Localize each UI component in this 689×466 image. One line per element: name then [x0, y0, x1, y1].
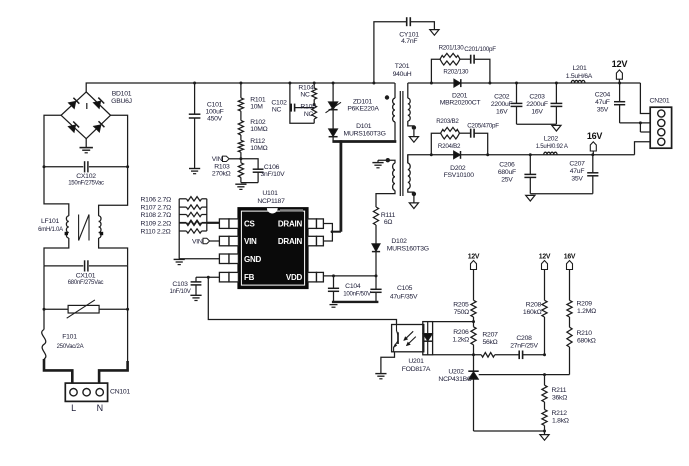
- pin pad DRAIN1: [308, 219, 324, 229]
- svg-text:250Vac/2A: 250Vac/2A: [57, 344, 84, 350]
- transformer primary winding: [385, 83, 395, 140]
- svg-text:FB: FB: [244, 273, 255, 282]
- snubber R203 R204: [430, 118, 461, 156]
- svg-text:VIN: VIN: [244, 237, 257, 246]
- diode D102: [372, 238, 429, 289]
- diode D101: [329, 110, 386, 142]
- svg-text:2200uF: 2200uF: [491, 101, 513, 108]
- resistor R206: [452, 327, 476, 355]
- resistor R212: [542, 402, 569, 431]
- svg-text:6Ω: 6Ω: [384, 219, 393, 226]
- pin pad FB: [219, 272, 238, 282]
- wire choke bottom left: [44, 238, 69, 266]
- svg-text:680kΩ: 680kΩ: [577, 337, 596, 344]
- svg-text:R108 2.7Ω: R108 2.7Ω: [141, 212, 172, 219]
- svg-text:L: L: [71, 403, 76, 413]
- capacitor C203: [517, 82, 563, 125]
- diode D202: [444, 151, 475, 179]
- transformer T201 core: [393, 63, 412, 196]
- svg-text:D101: D101: [356, 123, 372, 130]
- ground secondary1 arrow: [409, 137, 418, 143]
- ground bottom arrow: [540, 435, 549, 441]
- wire left rail CX101 to varistor: [43, 266, 45, 309]
- svg-text:D102: D102: [391, 238, 407, 245]
- svg-text:R204/B2: R204/B2: [438, 143, 461, 150]
- resistor R110: [141, 229, 207, 236]
- svg-text:16V: 16V: [496, 109, 508, 116]
- wire opto to R207 row: [433, 353, 482, 356]
- svg-text:DRAIN: DRAIN: [278, 237, 303, 246]
- capacitor C201: [460, 46, 496, 85]
- pin pad VDD: [308, 272, 324, 282]
- svg-text:CS: CS: [244, 220, 256, 229]
- resistor R111: [373, 207, 395, 244]
- ground C202 C203 arrow: [552, 125, 561, 131]
- capacitor C204: [595, 82, 625, 123]
- svg-text:R202/130: R202/130: [443, 69, 469, 76]
- svg-text:10MΩ: 10MΩ: [250, 126, 267, 133]
- choke LF101: [38, 215, 103, 241]
- svg-text:C203: C203: [529, 94, 545, 101]
- svg-text:16V: 16V: [587, 131, 603, 141]
- capacitor CY101: [372, 17, 434, 84]
- svg-text:MBR20200CT: MBR20200CT: [440, 100, 481, 107]
- wire 12V rail: [408, 82, 641, 84]
- svg-text:1.5uH/0.92 A: 1.5uH/0.92 A: [536, 144, 569, 150]
- svg-text:MURS160T3G: MURS160T3G: [344, 130, 386, 137]
- resistor R109: [141, 220, 207, 227]
- svg-text:R112: R112: [250, 138, 265, 145]
- svg-text:C206: C206: [499, 161, 515, 168]
- connector CN101: [65, 383, 130, 413]
- transformer secondary winding 2: [408, 155, 416, 203]
- wire input loop left: [44, 115, 69, 216]
- wire U202 anode bottom: [474, 430, 547, 435]
- svg-text:25V: 25V: [501, 176, 513, 183]
- wire NC loop: [288, 82, 314, 124]
- transformer aux winding: [376, 158, 395, 207]
- pin pad GND: [219, 254, 238, 264]
- svg-text:GND: GND: [244, 255, 262, 264]
- svg-text:35V: 35V: [597, 107, 609, 114]
- varistor: [43, 300, 130, 318]
- svg-text:C103: C103: [172, 281, 188, 288]
- ground C101: [189, 169, 200, 174]
- ground C206 arrow: [526, 195, 535, 201]
- optocoupler U201 FOD817A: [392, 322, 433, 373]
- wire drain thick: [332, 140, 396, 232]
- capacitor C104: [328, 274, 372, 301]
- wire DRAIN pins: [323, 224, 333, 242]
- svg-text:D202: D202: [450, 165, 466, 172]
- wire left rail to fuse: [43, 309, 45, 329]
- svg-text:U202: U202: [448, 368, 464, 375]
- svg-text:R109 2.2Ω: R109 2.2Ω: [141, 220, 172, 227]
- svg-text:680nF/275Vac: 680nF/275Vac: [68, 280, 104, 286]
- wire 16V rail: [408, 155, 635, 163]
- svg-text:10MΩ: 10MΩ: [250, 145, 267, 152]
- svg-text:N: N: [97, 403, 103, 413]
- capacitor C205: [460, 123, 500, 157]
- resistor R208: [523, 300, 547, 355]
- transformer secondary winding 1: [408, 83, 416, 137]
- ground CY101 arrow: [430, 30, 439, 36]
- wire choke bottom right: [99, 238, 128, 266]
- resistor R210: [567, 327, 596, 374]
- svg-text:R101: R101: [250, 96, 266, 103]
- capacitor C102 NC: [271, 99, 315, 113]
- svg-text:940uH: 940uH: [393, 71, 412, 78]
- svg-text:D201: D201: [452, 92, 468, 99]
- inductor L202: [536, 136, 569, 155]
- svg-text:C201/100pF: C201/100pF: [464, 46, 496, 53]
- pin pad VIN: [219, 236, 238, 246]
- resistor R105 NC: [300, 99, 316, 123]
- svg-text:R209: R209: [577, 300, 593, 307]
- capacitor C207: [530, 153, 598, 193]
- TVS ZD101: [326, 82, 380, 113]
- svg-text:NCP431BC: NCP431BC: [438, 376, 471, 383]
- svg-text:R206: R206: [453, 329, 469, 336]
- wire right rail to CN101: [99, 309, 128, 383]
- svg-text:VIN: VIN: [212, 156, 223, 163]
- svg-text:MURS160T3G: MURS160T3G: [387, 245, 429, 252]
- svg-text:C106: C106: [264, 164, 280, 171]
- svg-text:NC: NC: [272, 107, 282, 114]
- svg-text:C208: C208: [516, 335, 532, 342]
- svg-text:35V: 35V: [571, 175, 583, 182]
- node VIN pin: [192, 238, 219, 245]
- svg-text:F101: F101: [62, 334, 77, 341]
- svg-text:VDD: VDD: [286, 273, 303, 282]
- svg-text:R103: R103: [214, 163, 230, 170]
- svg-text:R212: R212: [552, 410, 568, 417]
- node 12V flag top: [612, 59, 629, 83]
- resistor R112: [238, 135, 267, 163]
- svg-text:1.5uH/6A: 1.5uH/6A: [566, 73, 593, 80]
- svg-text:56kΩ: 56kΩ: [482, 339, 497, 346]
- wire HV bus: [86, 83, 395, 92]
- svg-text:1.8kΩ: 1.8kΩ: [552, 417, 569, 424]
- svg-text:1.2kΩ: 1.2kΩ: [452, 336, 469, 343]
- resistor R104 NC: [298, 82, 316, 100]
- svg-text:P6KE220A: P6KE220A: [347, 106, 379, 113]
- svg-text:BD101: BD101: [112, 91, 132, 98]
- connector CN201: [650, 97, 672, 148]
- resistor R103: [212, 163, 244, 183]
- resistor R101: [238, 82, 266, 112]
- node 12V flag R205: [468, 253, 480, 300]
- svg-text:100uF: 100uF: [205, 109, 223, 116]
- svg-text:CN101: CN101: [110, 389, 130, 396]
- node 16V flag R209: [564, 253, 576, 300]
- svg-text:C205/470pF: C205/470pF: [467, 123, 499, 130]
- ground secondary2 arrow: [409, 203, 418, 209]
- shunt regulator U202 NCP431BC: [438, 355, 478, 431]
- svg-text:T201: T201: [395, 63, 410, 70]
- svg-text:FOD817A: FOD817A: [402, 366, 431, 373]
- svg-text:R106 2.7Ω: R106 2.7Ω: [141, 196, 172, 203]
- capacitor C103: [169, 277, 219, 295]
- wire right rail CX101 to varistor: [127, 266, 129, 309]
- pin pad DRAIN2: [308, 236, 324, 246]
- resistor R209: [567, 300, 596, 327]
- svg-text:CX102: CX102: [76, 173, 96, 180]
- inductor L201: [566, 65, 593, 83]
- snubber R201 R202: [430, 45, 469, 85]
- svg-text:47uF: 47uF: [595, 99, 610, 106]
- svg-text:CN201: CN201: [650, 97, 670, 104]
- svg-text:750Ω: 750Ω: [454, 309, 470, 316]
- wire VDD net: [323, 275, 376, 277]
- wire 16V to CN201: [635, 142, 651, 155]
- svg-text:L202: L202: [544, 136, 559, 143]
- pin labels U101: [244, 220, 302, 283]
- wire CS network: [179, 199, 219, 259]
- svg-text:10M: 10M: [250, 103, 263, 110]
- svg-text:C105: C105: [397, 285, 413, 292]
- svg-text:100nF/50V: 100nF/50V: [343, 290, 372, 297]
- svg-text:C101: C101: [207, 102, 223, 109]
- svg-text:6mH/1.0A: 6mH/1.0A: [38, 227, 63, 233]
- ground opto: [375, 374, 386, 379]
- svg-text:R203/B2: R203/B2: [436, 118, 459, 125]
- svg-text:GBU6J: GBU6J: [111, 98, 132, 105]
- svg-text:C202: C202: [494, 94, 510, 101]
- capacitor C206: [498, 153, 536, 193]
- svg-text:CX101: CX101: [76, 272, 96, 279]
- pin pad CS: [219, 219, 238, 229]
- svg-text:R205: R205: [453, 301, 469, 308]
- capacitor C208: [495, 335, 546, 359]
- ground bridge: [80, 139, 93, 153]
- capacitor CX101: [44, 260, 128, 286]
- svg-text:R102: R102: [250, 119, 266, 126]
- wire C204 to CN201: [620, 121, 651, 132]
- svg-text:12V: 12V: [612, 59, 629, 69]
- resistor R205: [453, 300, 476, 327]
- svg-text:C204: C204: [595, 92, 611, 99]
- wire U202 ref to R210 R211: [479, 373, 570, 376]
- resistor R106: [141, 196, 207, 203]
- svg-text:DRAIN: DRAIN: [278, 220, 303, 229]
- node VIN: [212, 156, 243, 163]
- resistor R211: [542, 375, 567, 402]
- wire FB to opto: [207, 276, 397, 325]
- wire to CN101 left thick: [44, 359, 72, 383]
- svg-text:160kΩ: 160kΩ: [523, 309, 542, 316]
- svg-text:12V: 12V: [539, 253, 551, 260]
- capacitor C202: [491, 82, 522, 125]
- svg-text:680uF: 680uF: [498, 169, 516, 176]
- svg-text:R105: R105: [300, 104, 316, 111]
- wire input loop right: [99, 115, 128, 216]
- svg-text:270kΩ: 270kΩ: [212, 171, 231, 178]
- svg-text:FSV10100: FSV10100: [444, 172, 475, 179]
- svg-text:4.7nF: 4.7nF: [401, 38, 417, 45]
- svg-text:150nF/275Vac: 150nF/275Vac: [68, 181, 104, 187]
- svg-text:C104: C104: [345, 283, 361, 290]
- resistor R207: [481, 331, 498, 357]
- fuse F101: [42, 330, 84, 360]
- svg-text:R110 2.2Ω: R110 2.2Ω: [141, 229, 171, 236]
- svg-text:VIN: VIN: [192, 239, 203, 246]
- op-amp U101 NCP1187: [238, 190, 307, 288]
- svg-text:27nF/25V: 27nF/25V: [510, 342, 538, 349]
- bridge rectifier BD101: [61, 91, 132, 139]
- svg-text:3nF/10V: 3nF/10V: [261, 171, 286, 178]
- svg-text:R107 2.7Ω: R107 2.7Ω: [141, 205, 172, 212]
- ground C103: [190, 295, 201, 300]
- svg-text:2200uF: 2200uF: [526, 101, 548, 108]
- svg-text:1.2MΩ: 1.2MΩ: [577, 308, 596, 315]
- svg-text:R111: R111: [381, 212, 396, 219]
- node 16V flag mid: [587, 131, 603, 155]
- svg-text:U101: U101: [262, 190, 278, 197]
- svg-text:16V: 16V: [531, 109, 543, 116]
- svg-text:R207: R207: [482, 331, 498, 338]
- ground C104 C105: [330, 302, 379, 307]
- svg-text:47uF: 47uF: [570, 168, 585, 175]
- svg-text:LF101: LF101: [41, 218, 59, 225]
- svg-text:450V: 450V: [207, 116, 223, 123]
- svg-text:NC: NC: [300, 92, 310, 99]
- ground R103: [235, 184, 246, 189]
- wire 12V to CN201: [640, 83, 650, 114]
- wire GND pin: [179, 258, 219, 260]
- capacitor C105: [370, 274, 418, 301]
- wire opto LED top to R205 R206: [433, 320, 475, 323]
- capacitor C106: [241, 159, 285, 183]
- svg-text:R208: R208: [526, 301, 542, 308]
- svg-text:NC: NC: [304, 111, 314, 118]
- svg-text:R104: R104: [298, 85, 314, 92]
- svg-text:NCP1187: NCP1187: [257, 198, 285, 205]
- capacitor CX102: [43, 161, 130, 186]
- svg-text:C207: C207: [569, 160, 585, 167]
- svg-text:12V: 12V: [468, 253, 480, 260]
- svg-text:ZD101: ZD101: [353, 98, 373, 105]
- resistor R102: [238, 111, 267, 135]
- svg-text:1nF/10V: 1nF/10V: [169, 289, 190, 295]
- ground aux winding: [372, 160, 383, 168]
- svg-text:C102: C102: [271, 99, 287, 106]
- ground CS network: [174, 259, 185, 264]
- svg-text:U201: U201: [408, 358, 424, 365]
- svg-text:16V: 16V: [564, 253, 576, 260]
- svg-text:L201: L201: [572, 65, 587, 72]
- svg-text:R210: R210: [577, 330, 593, 337]
- svg-text:47uF/35V: 47uF/35V: [390, 293, 418, 300]
- resistor R108: [141, 212, 207, 219]
- resistor R107: [141, 205, 207, 212]
- wire opto emitter to ground: [381, 352, 395, 374]
- node 12V flag R208: [539, 253, 551, 300]
- diode D201: [440, 79, 481, 107]
- svg-text:R211: R211: [552, 387, 567, 394]
- capacitor C101: [189, 82, 224, 169]
- svg-text:36kΩ: 36kΩ: [552, 394, 567, 401]
- svg-text:R201/130: R201/130: [439, 45, 465, 52]
